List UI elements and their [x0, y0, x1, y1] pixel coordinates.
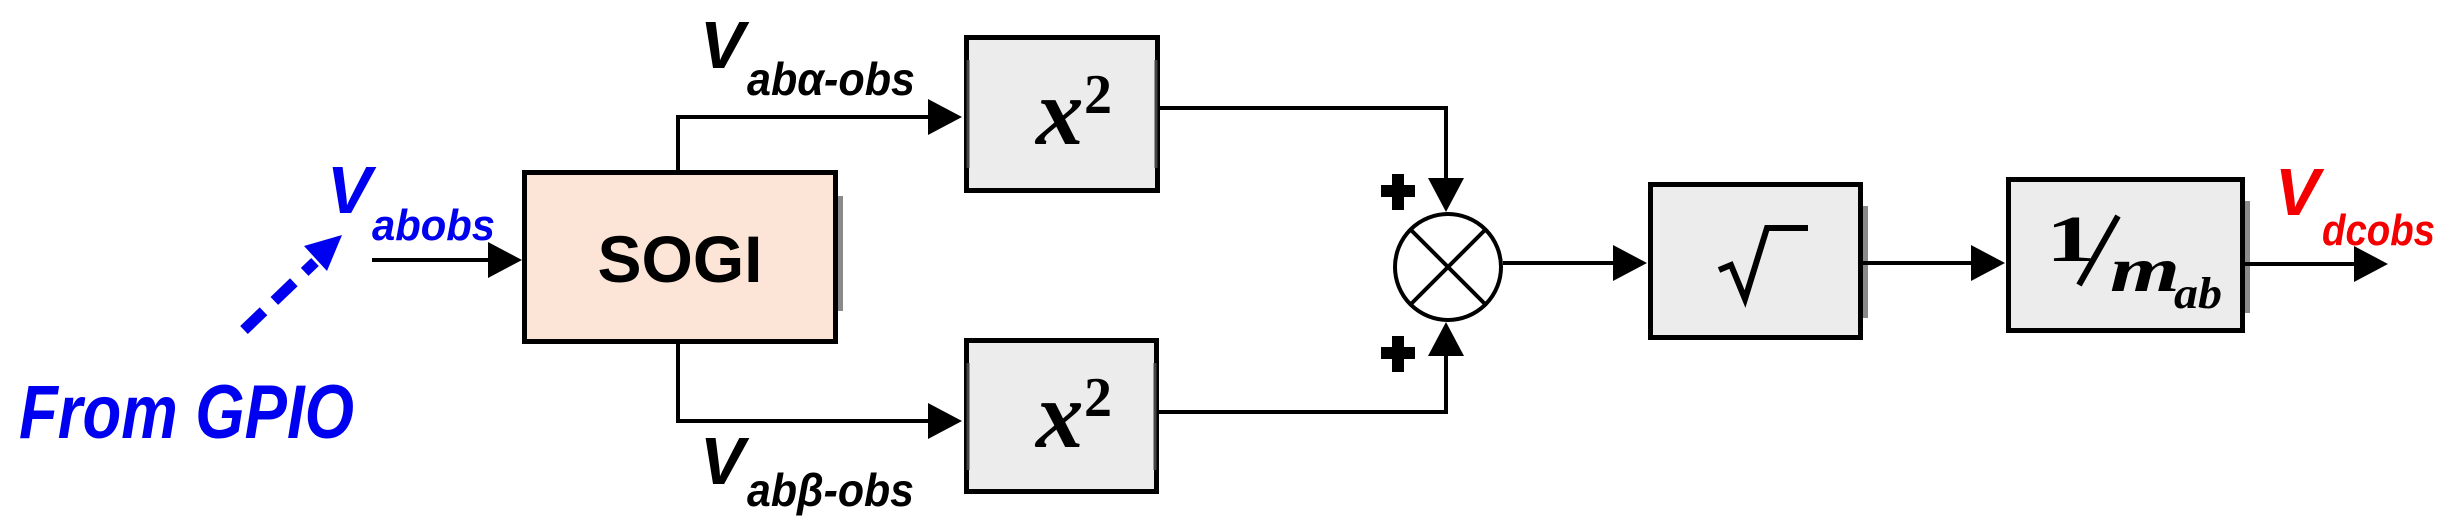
summer multiplier junction — [1395, 214, 1501, 320]
svg-text:abobs: abobs — [372, 201, 495, 250]
svg-text:2: 2 — [1084, 367, 1112, 429]
svg-text:V: V — [2275, 155, 2325, 230]
label From GPIO — [19, 370, 354, 455]
plus sign bottom — [1381, 336, 1415, 372]
wire top x-squared to summer — [1160, 108, 1464, 212]
svg-text:From GPIO: From GPIO — [19, 370, 354, 455]
svg-text:2: 2 — [1084, 64, 1112, 126]
svg-text:x: x — [1034, 362, 1084, 468]
svg-text:V: V — [327, 153, 377, 228]
block reciprocal 1/m_ab — [2009, 180, 2251, 331]
wire SOGI top output — [678, 99, 962, 170]
block x-squared top — [967, 38, 1158, 191]
wire final output — [2245, 246, 2388, 282]
svg-text:x: x — [1034, 59, 1084, 165]
block x-squared bottom — [967, 341, 1157, 492]
wire summer to sqrt — [1503, 245, 1647, 281]
svg-text:abβ-obs: abβ-obs — [747, 464, 914, 516]
node Vab&#946;-obs label — [700, 424, 914, 516]
wire SOGI bottom output — [678, 344, 962, 439]
block SOGI — [525, 173, 844, 342]
svg-text:m: m — [2110, 234, 2180, 305]
node Vab&#945;-obs label — [700, 8, 915, 105]
wire input to SOGI — [372, 242, 522, 278]
svg-text:dcobs: dcobs — [2322, 206, 2435, 255]
wire bottom x-squared to summer — [1159, 322, 1464, 412]
svg-text:V: V — [700, 8, 750, 83]
svg-text:ab: ab — [2174, 269, 2222, 318]
svg-text:abα-obs: abα-obs — [747, 53, 915, 105]
svg-text:SOGI: SOGI — [597, 222, 762, 296]
plus sign top — [1381, 174, 1415, 210]
wire sqrt to reciprocal block — [1863, 245, 2005, 281]
node Vdcobs label — [2275, 155, 2435, 255]
node Vabobs label — [327, 153, 495, 250]
svg-text:V: V — [700, 424, 750, 499]
block square root — [1651, 185, 1869, 338]
dashed arrow from GPIO — [244, 235, 342, 330]
